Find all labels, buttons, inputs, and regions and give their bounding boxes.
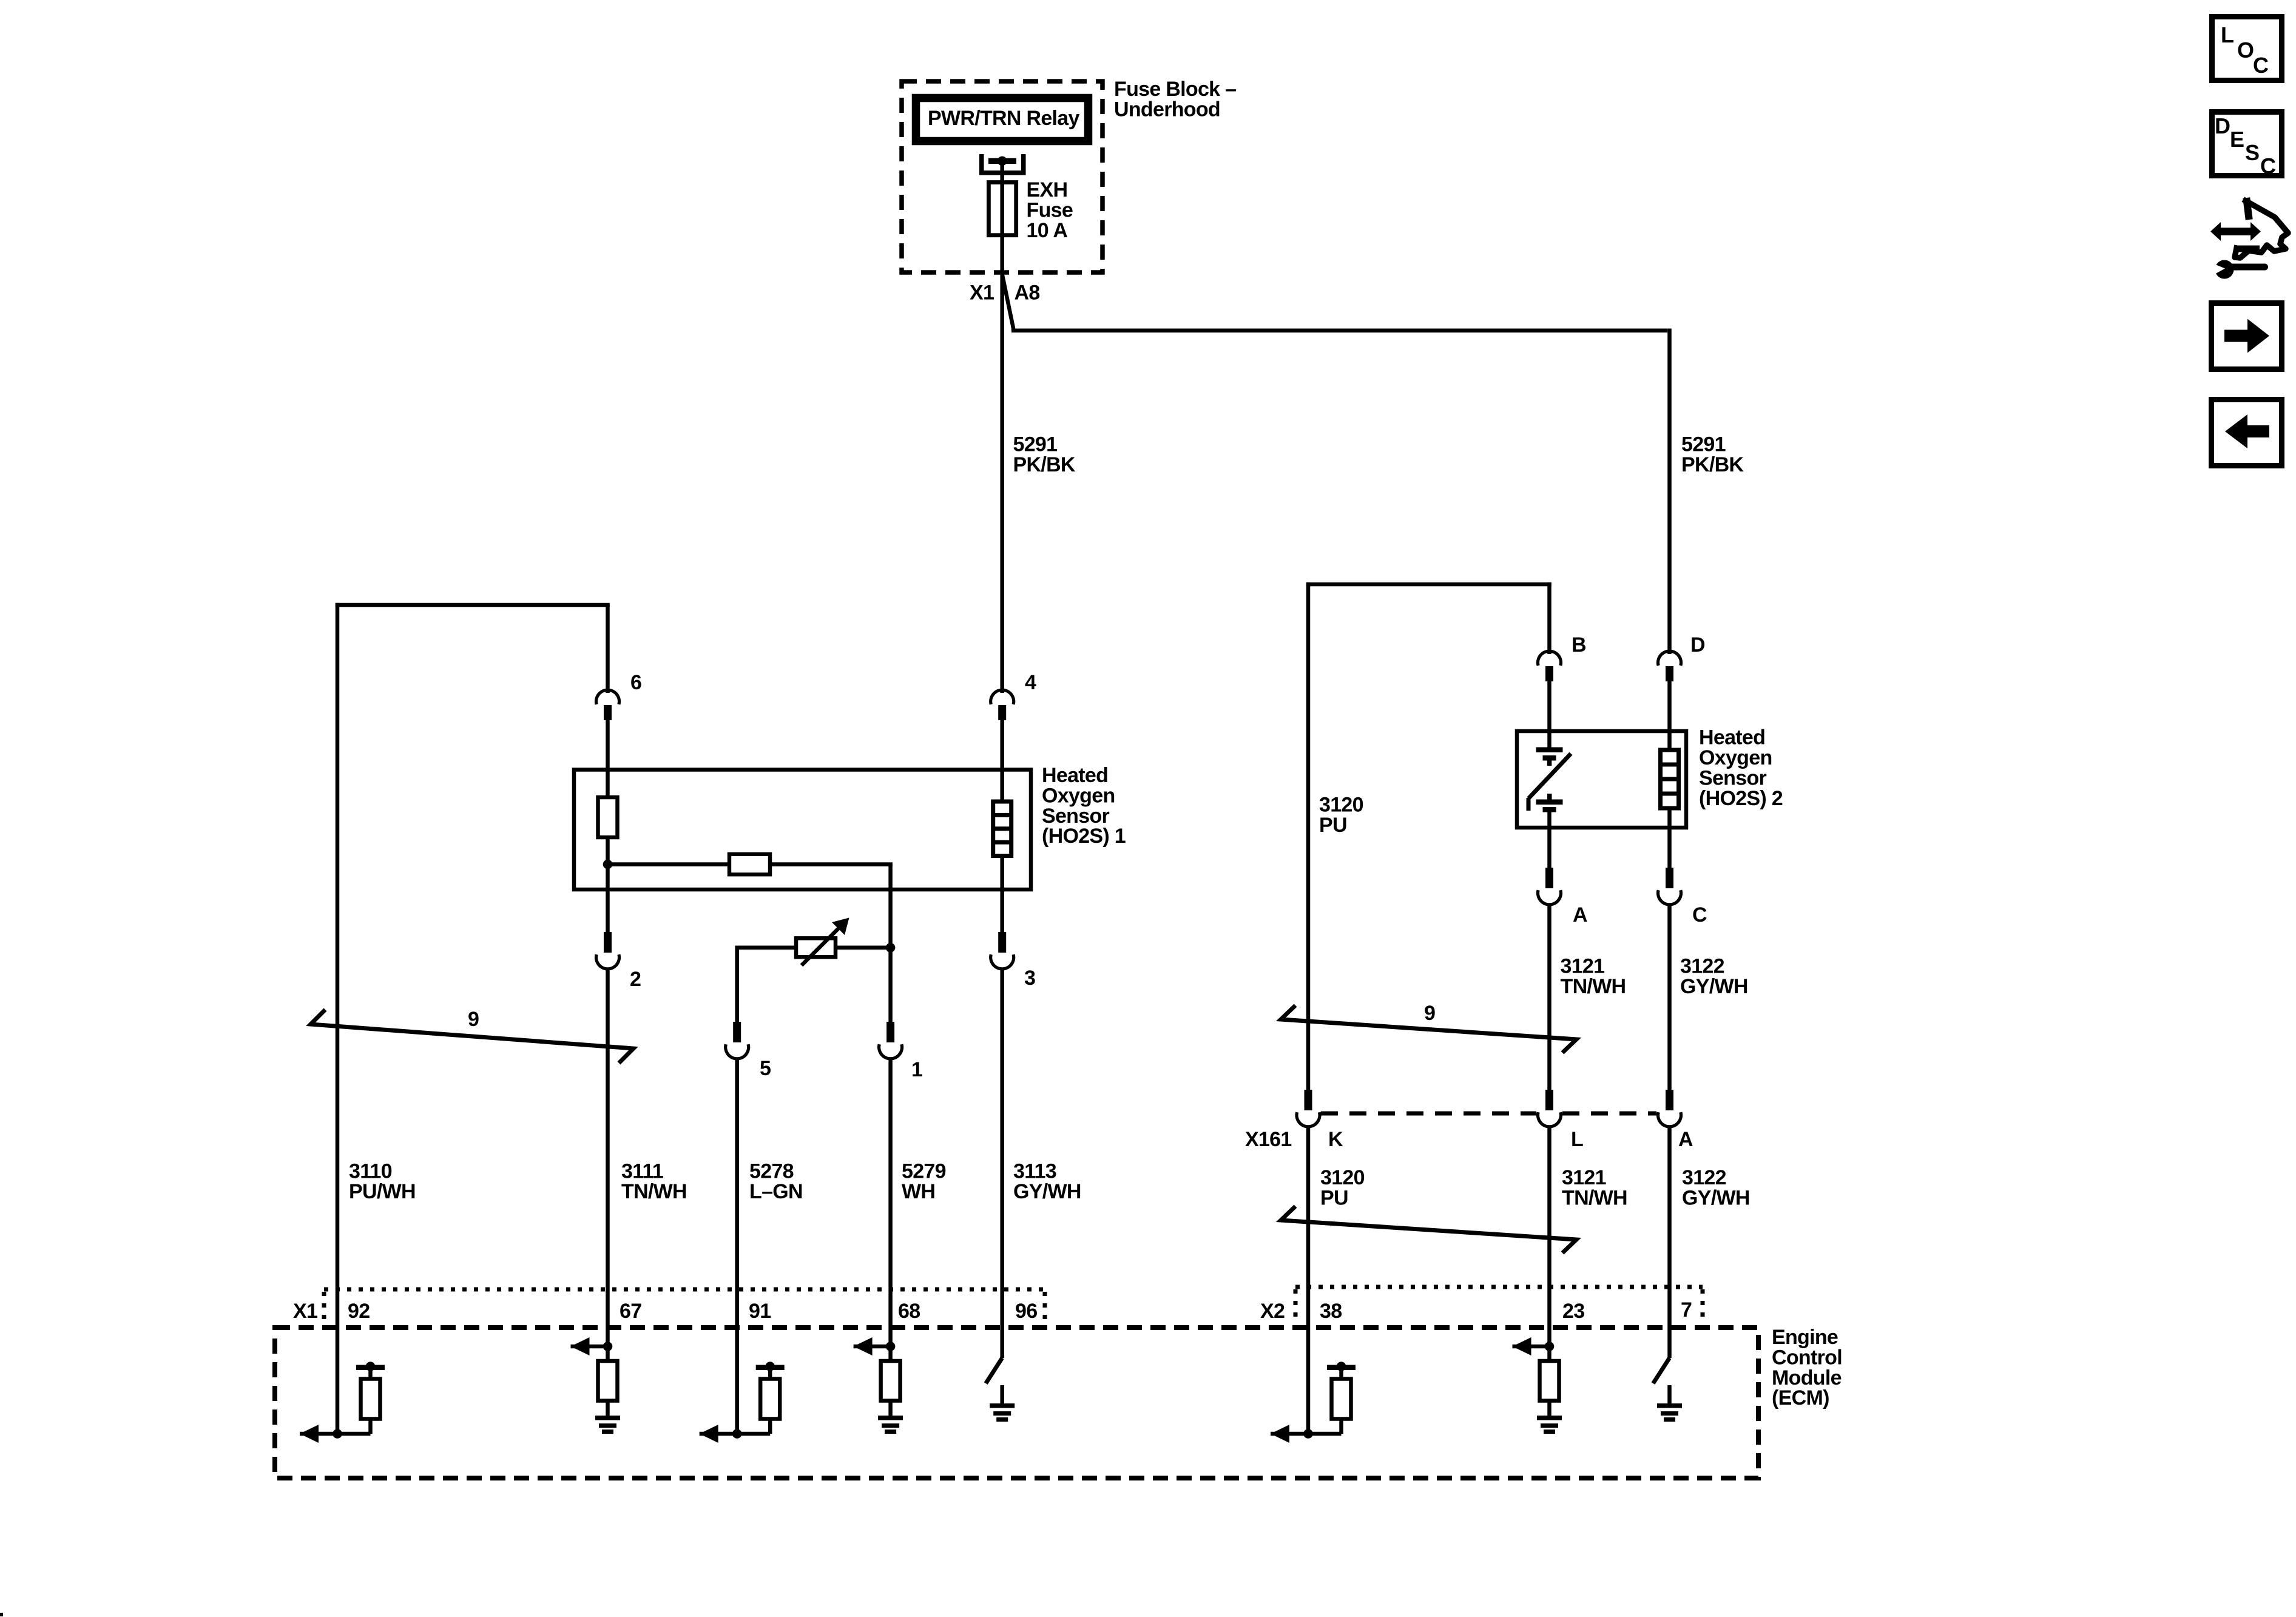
wire 3121 X161 to ECM 23 bbox=[1547, 1128, 1551, 1346]
svg-text:23: 23 bbox=[1562, 1300, 1584, 1323]
svg-text:3120: 3120 bbox=[1319, 794, 1363, 817]
wire 3120 X161 to ECM 38 bbox=[1306, 1128, 1311, 1434]
variable resistor arrow bbox=[802, 918, 849, 966]
variable resistor bbox=[796, 938, 836, 957]
wire drop to terminal B bbox=[1547, 582, 1551, 654]
svg-text:Engine: Engine bbox=[1772, 1326, 1838, 1349]
wire relay to fuse bbox=[1000, 161, 1004, 274]
terminal 3 connector bbox=[991, 932, 1014, 969]
label 3121 TN/WH upper bbox=[1561, 955, 1626, 998]
label 5278 L-GN bbox=[749, 1160, 803, 1203]
label terminal C bbox=[1692, 903, 1707, 927]
svg-text:Fuse Block –: Fuse Block – bbox=[1114, 78, 1236, 101]
svg-text:Oxygen: Oxygen bbox=[1699, 746, 1772, 769]
wire 5279 terminal 1 to ECM 68 bbox=[888, 1060, 893, 1346]
svg-text:Heated: Heated bbox=[1042, 764, 1108, 787]
label X1 bbox=[970, 282, 994, 305]
svg-text:X1: X1 bbox=[293, 1300, 317, 1323]
label pin 23 bbox=[1562, 1300, 1584, 1323]
label 9 right bbox=[1424, 1002, 1435, 1025]
terminal 6 connector bbox=[596, 690, 620, 720]
svg-text:3121: 3121 bbox=[1561, 955, 1605, 978]
svg-text:X161: X161 bbox=[1245, 1128, 1292, 1151]
wire 5291 horizontal bus bbox=[1011, 329, 1667, 333]
icon hand double arrow bbox=[2210, 222, 2261, 241]
label 3121 TN/WH lower bbox=[1562, 1166, 1627, 1209]
icon prev page box bbox=[2212, 400, 2282, 466]
label 5291 PK/BK right bbox=[1681, 433, 1744, 476]
HO2S1 sense resistor bbox=[729, 854, 770, 875]
wire 3120 top run bbox=[1306, 582, 1551, 1090]
svg-text:A8: A8 bbox=[1015, 282, 1040, 305]
wire X1-A8 down to terminal 4 bbox=[1000, 272, 1004, 693]
svg-text:3110: 3110 bbox=[349, 1160, 392, 1183]
connector X1 dotted bracket bbox=[324, 1289, 1045, 1321]
label pin 38 bbox=[1320, 1300, 1342, 1323]
wire junction to terminal 1 bbox=[888, 948, 893, 1022]
svg-text:PK/BK: PK/BK bbox=[1681, 453, 1744, 476]
HO2S1 heater element R bbox=[598, 797, 618, 837]
svg-text:6: 6 bbox=[630, 671, 641, 694]
icon next page arrow bbox=[2224, 319, 2269, 353]
svg-text:3: 3 bbox=[1024, 967, 1035, 990]
svg-text:3120: 3120 bbox=[1320, 1166, 1365, 1189]
wire 3122 terminal C to X161 A bbox=[1667, 906, 1672, 1090]
terminal 4 connector bbox=[991, 690, 1014, 720]
label X161 bbox=[1245, 1128, 1292, 1151]
svg-text:5291: 5291 bbox=[1681, 433, 1726, 456]
svg-text:PK/BK: PK/BK bbox=[1013, 453, 1076, 476]
svg-text:E: E bbox=[2230, 127, 2244, 152]
svg-text:5278: 5278 bbox=[749, 1160, 794, 1183]
svg-text:L: L bbox=[1571, 1128, 1583, 1151]
svg-text:A: A bbox=[1573, 903, 1587, 927]
svg-text:5: 5 bbox=[760, 1057, 771, 1080]
HO2S2 sensor element bbox=[1661, 750, 1679, 808]
svg-text:Sensor: Sensor bbox=[1042, 805, 1110, 828]
wire element to terminal C bbox=[1667, 808, 1672, 868]
svg-text:92: 92 bbox=[348, 1300, 370, 1323]
svg-text:A: A bbox=[1678, 1128, 1693, 1151]
svg-text:L: L bbox=[2221, 22, 2234, 47]
label PWR/TRN Relay bbox=[928, 107, 1080, 130]
svg-text:PU: PU bbox=[1320, 1186, 1348, 1209]
svg-text:10 A: 10 A bbox=[1027, 219, 1068, 242]
label terminal A bbox=[1573, 903, 1587, 927]
wire 5291 right drop to terminal D bbox=[1667, 329, 1672, 655]
wire battery to terminal A bbox=[1547, 812, 1551, 868]
label 3120 PU upper bbox=[1319, 794, 1363, 837]
terminal A connector bbox=[1538, 868, 1561, 905]
HO2S1 sensor element bbox=[993, 802, 1011, 856]
svg-text:K: K bbox=[1328, 1128, 1343, 1151]
icon LOC box bbox=[2212, 17, 2282, 81]
terminal L connector bbox=[1538, 1090, 1561, 1127]
svg-text:68: 68 bbox=[898, 1300, 920, 1323]
wire 5278 terminal 5 to ECM 91 bbox=[735, 1060, 739, 1434]
svg-text:TN/WH: TN/WH bbox=[621, 1180, 687, 1203]
svg-text:(HO2S) 1: (HO2S) 1 bbox=[1042, 825, 1126, 848]
connector X2 dotted bracket bbox=[1295, 1287, 1703, 1321]
svg-text:(HO2S) 2: (HO2S) 2 bbox=[1699, 787, 1783, 810]
page dot bottom left bbox=[0, 1613, 3, 1616]
svg-text:Underhood: Underhood bbox=[1114, 98, 1220, 121]
svg-text:3122: 3122 bbox=[1680, 955, 1724, 978]
svg-text:3113: 3113 bbox=[1013, 1160, 1056, 1183]
relay contact bar and junction dot bbox=[988, 157, 1016, 166]
HO2S2 box bbox=[1517, 731, 1686, 828]
wire 3110 top run bbox=[336, 603, 610, 1434]
label 3122 GY/WH upper bbox=[1680, 955, 1748, 998]
wire terminal 4 pin through sensor element bbox=[1000, 720, 1004, 802]
svg-text:5291: 5291 bbox=[1013, 433, 1058, 456]
svg-text:D: D bbox=[2215, 113, 2230, 138]
svg-text:GY/WH: GY/WH bbox=[1682, 1186, 1750, 1209]
junction node HO2S1 sense bbox=[603, 860, 613, 869]
label terminal 3 bbox=[1024, 967, 1035, 990]
svg-text:PWR/TRN Relay: PWR/TRN Relay bbox=[928, 107, 1080, 130]
icon hand outline bbox=[2235, 201, 2288, 258]
fuse F1 EXH 10A bbox=[988, 183, 1016, 235]
wire branch to 5291 bus bbox=[1002, 274, 1013, 331]
svg-text:38: 38 bbox=[1320, 1300, 1342, 1323]
label X1 connector bbox=[293, 1300, 317, 1323]
label 9 left bbox=[468, 1008, 479, 1031]
label terminal 6 bbox=[630, 671, 641, 694]
terminal 2 connector bbox=[596, 932, 619, 969]
svg-text:TN/WH: TN/WH bbox=[1562, 1186, 1627, 1209]
label pin 91 bbox=[749, 1300, 771, 1323]
svg-text:L–GN: L–GN bbox=[749, 1180, 803, 1203]
svg-text:Sensor: Sensor bbox=[1699, 766, 1767, 789]
svg-text:5279: 5279 bbox=[902, 1160, 946, 1183]
svg-text:3121: 3121 bbox=[1562, 1166, 1606, 1189]
wire 3121 terminal A to X161 L bbox=[1547, 906, 1551, 1090]
svg-text:PU: PU bbox=[1319, 814, 1347, 837]
svg-text:9: 9 bbox=[1424, 1002, 1435, 1025]
svg-text:PU/WH: PU/WH bbox=[349, 1180, 416, 1203]
svg-text:(ECM): (ECM) bbox=[1772, 1386, 1829, 1409]
label 3120 PU lower bbox=[1320, 1166, 1365, 1209]
ECM pin 38 sense circuit bbox=[1271, 1362, 1356, 1443]
svg-text:C: C bbox=[1692, 903, 1707, 927]
label Fuse Block - Underhood bbox=[1114, 78, 1236, 121]
label pin 7 bbox=[1681, 1298, 1692, 1322]
svg-text:Heated: Heated bbox=[1699, 726, 1765, 749]
wire 3111 terminal 2 to ECM 67 bbox=[606, 970, 610, 1346]
ECM dashed box bbox=[275, 1328, 1758, 1478]
wire sense corner down bbox=[888, 865, 893, 948]
relay K1 PWR/TRN Relay box bbox=[916, 98, 1089, 141]
ECM pin 68 driver circuit bbox=[854, 1337, 903, 1434]
wire varistor branch bbox=[735, 946, 891, 1022]
label terminal B bbox=[1572, 633, 1586, 657]
svg-text:C: C bbox=[2253, 53, 2269, 78]
HO2S1 box bbox=[574, 770, 1031, 890]
icon next page box bbox=[2212, 303, 2282, 370]
ECM pin 92 sense circuit bbox=[300, 1362, 385, 1443]
svg-text:WH: WH bbox=[902, 1180, 935, 1203]
svg-text:B: B bbox=[1572, 633, 1586, 657]
label 5291 PK/BK left bbox=[1013, 433, 1076, 476]
svg-text:91: 91 bbox=[749, 1300, 771, 1323]
HO2S2 battery top bbox=[1536, 748, 1563, 766]
label EXH Fuse 10 A bbox=[1027, 178, 1073, 242]
terminal C connector bbox=[1658, 868, 1681, 905]
svg-text:Fuse: Fuse bbox=[1027, 198, 1073, 221]
label terminal 1 bbox=[911, 1058, 922, 1081]
svg-text:Oxygen: Oxygen bbox=[1042, 784, 1115, 807]
label pin 96 bbox=[1015, 1300, 1037, 1323]
label Engine Control Module (ECM) bbox=[1772, 1326, 1842, 1409]
ECM pin 96 switch to ground bbox=[986, 1358, 1015, 1422]
wire 3111 drop to terminal 6 bbox=[606, 605, 610, 693]
svg-text:GY/WH: GY/WH bbox=[1680, 975, 1748, 998]
ECM pin 91 sense circuit bbox=[700, 1362, 785, 1443]
label terminal 5 bbox=[760, 1057, 771, 1080]
terminal K connector bbox=[1297, 1090, 1320, 1127]
crossing mark lower right bbox=[1281, 1206, 1576, 1253]
label terminal A lower bbox=[1678, 1128, 1693, 1151]
svg-text:3111: 3111 bbox=[621, 1160, 663, 1183]
label 3110 PU/WH bbox=[349, 1160, 416, 1203]
terminal A2 connector bbox=[1658, 1090, 1681, 1127]
label 3113 GY/WH bbox=[1013, 1160, 1081, 1203]
svg-text:X1: X1 bbox=[970, 282, 994, 305]
junction node wire 5279 bbox=[886, 943, 896, 953]
label Heated Oxygen Sensor (HO2S) 2 bbox=[1699, 726, 1783, 810]
connector X161 dashed line bbox=[1321, 1112, 1656, 1116]
svg-text:Control: Control bbox=[1772, 1346, 1842, 1369]
label terminal L bbox=[1571, 1128, 1583, 1151]
svg-text:Module: Module bbox=[1772, 1366, 1842, 1389]
label Heated Oxygen Sensor (HO2S) 1 bbox=[1042, 764, 1126, 848]
fuse block - underhood dashed box bbox=[902, 81, 1102, 272]
wire element to box bottom bbox=[1000, 856, 1004, 933]
wire 3122 X161 to ECM 7 bbox=[1667, 1128, 1672, 1358]
ECM pin 7 switch to ground bbox=[1653, 1358, 1683, 1422]
icon DESC letters bbox=[2215, 113, 2276, 178]
label A8 bbox=[1015, 282, 1040, 305]
label terminal D bbox=[1690, 633, 1705, 657]
svg-text:4: 4 bbox=[1025, 671, 1036, 694]
label terminal 2 bbox=[630, 968, 641, 991]
svg-text:EXH: EXH bbox=[1027, 178, 1068, 201]
wire terminal D through element bbox=[1667, 681, 1672, 750]
label terminal 4 bbox=[1025, 671, 1036, 694]
label 3122 GY/WH lower bbox=[1682, 1166, 1750, 1209]
HO2S1 sense wire bbox=[608, 862, 893, 866]
label pin 67 bbox=[620, 1300, 641, 1323]
wire terminal 6 pin into box bbox=[606, 720, 610, 797]
icon prev page arrow bbox=[2225, 414, 2269, 448]
relay contact bracket bbox=[979, 154, 1026, 175]
terminal 5 connector bbox=[726, 1022, 749, 1059]
label pin 68 bbox=[898, 1300, 920, 1323]
svg-text:TN/WH: TN/WH bbox=[1561, 975, 1626, 998]
svg-text:D: D bbox=[1690, 633, 1705, 657]
svg-text:S: S bbox=[2245, 140, 2259, 165]
ECM pin 23 driver circuit bbox=[1513, 1337, 1562, 1434]
terminal 1 connector bbox=[879, 1022, 902, 1059]
wire sense node to terminal 2 bbox=[606, 865, 610, 933]
svg-text:9: 9 bbox=[468, 1008, 479, 1031]
ECM pin 67 driver circuit bbox=[571, 1337, 621, 1434]
label pin 92 bbox=[348, 1300, 370, 1323]
terminal B connector bbox=[1538, 651, 1561, 681]
svg-text:96: 96 bbox=[1015, 1300, 1037, 1323]
svg-text:3122: 3122 bbox=[1682, 1166, 1726, 1189]
label 3111 TN/WH bbox=[621, 1160, 687, 1203]
label X2 connector bbox=[1260, 1300, 1285, 1323]
icon wrench bbox=[2211, 260, 2268, 279]
terminal D connector bbox=[1658, 651, 1681, 681]
svg-text:1: 1 bbox=[911, 1058, 922, 1081]
wire terminal B into box bbox=[1547, 681, 1551, 748]
label 5279 WH bbox=[902, 1160, 946, 1203]
svg-text:C: C bbox=[2260, 154, 2276, 178]
svg-text:O: O bbox=[2237, 38, 2254, 62]
svg-text:7: 7 bbox=[1681, 1298, 1692, 1322]
HO2S2 switch blade bbox=[1528, 754, 1571, 811]
HO2S2 battery bottom bbox=[1536, 794, 1563, 812]
wire 3113 terminal 3 to ECM 96 bbox=[1000, 970, 1004, 1358]
crossing mark 9 right bbox=[1281, 1005, 1576, 1053]
icon LOC letters bbox=[2221, 22, 2269, 78]
svg-text:GY/WH: GY/WH bbox=[1013, 1180, 1081, 1203]
svg-text:2: 2 bbox=[630, 968, 641, 991]
svg-text:X2: X2 bbox=[1260, 1300, 1285, 1323]
icon DESC box bbox=[2212, 112, 2282, 176]
crossing mark 9 left bbox=[311, 1010, 633, 1063]
label terminal K bbox=[1328, 1128, 1343, 1151]
wire heater to sense node bbox=[606, 837, 610, 865]
svg-text:67: 67 bbox=[620, 1300, 641, 1323]
